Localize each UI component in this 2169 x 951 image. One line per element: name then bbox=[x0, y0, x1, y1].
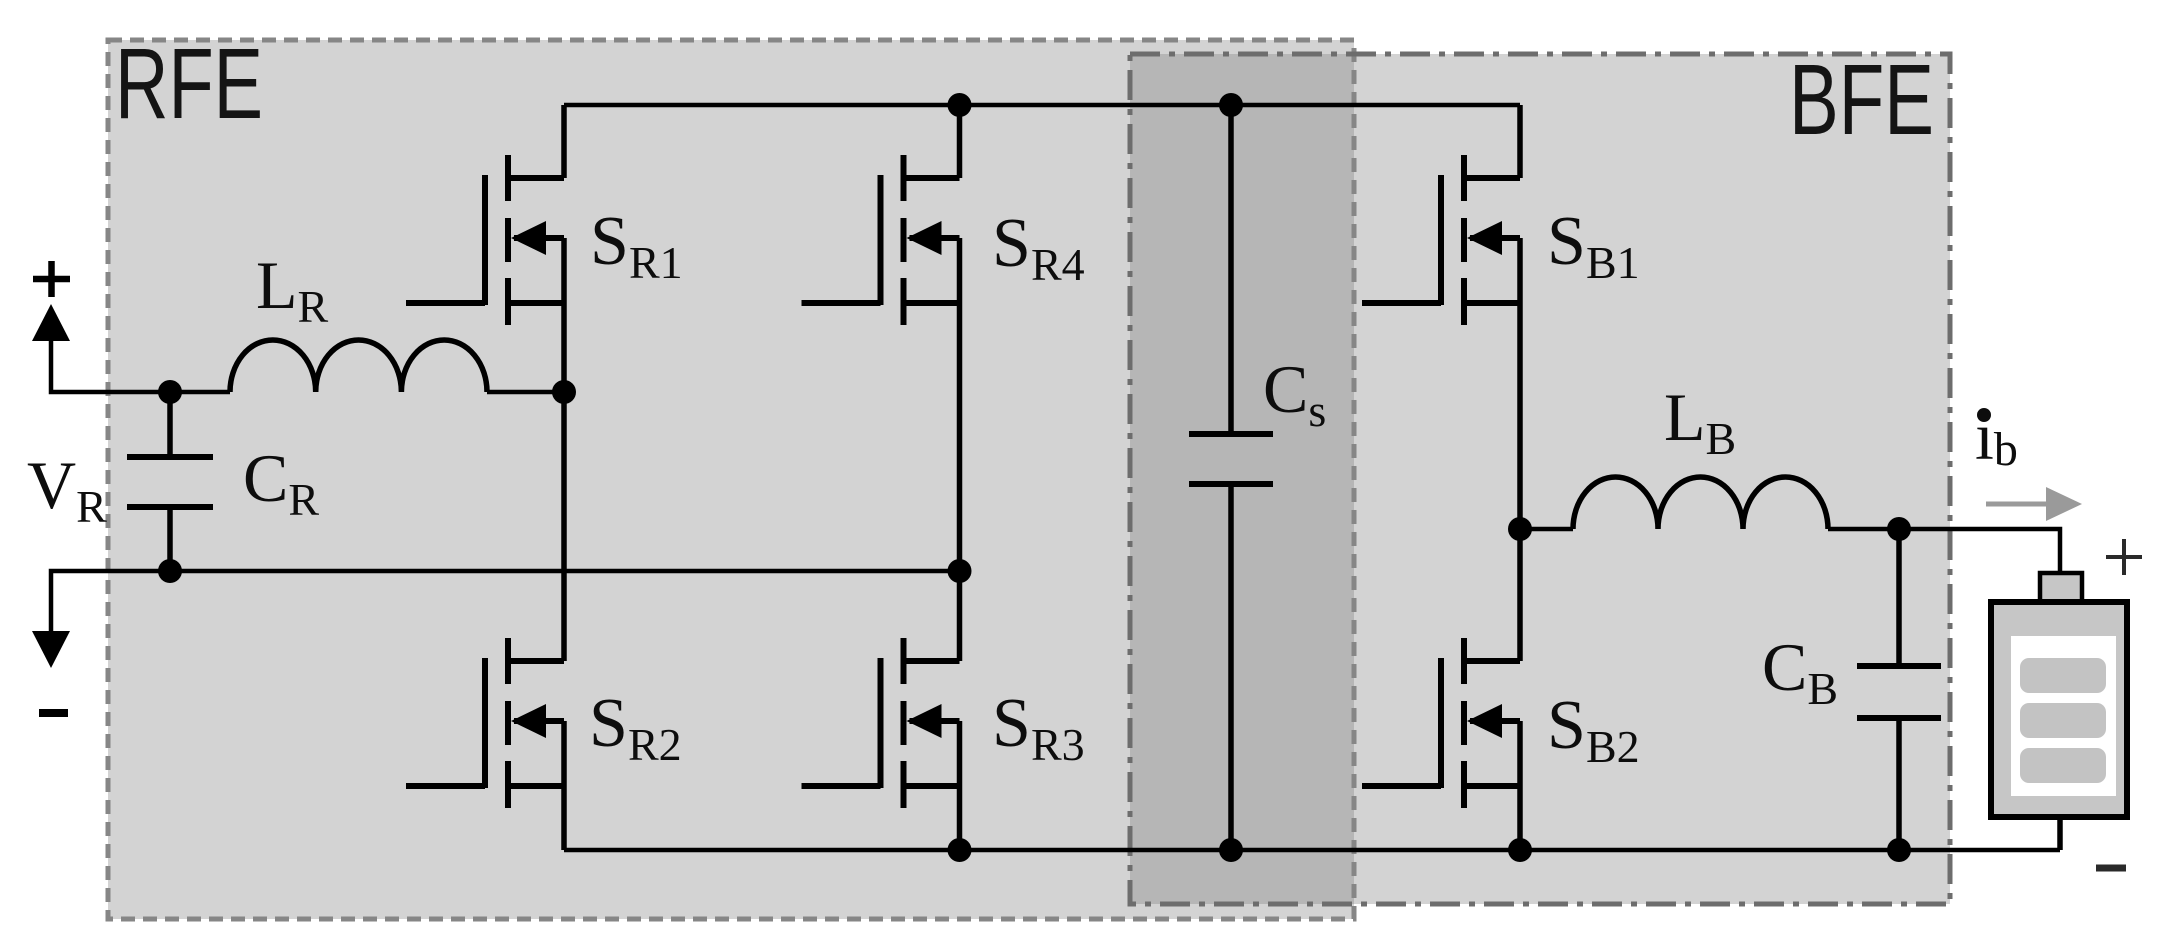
wire legB middle segment bbox=[1517, 238, 1523, 661]
wire Vr plus lead bbox=[51, 338, 230, 392]
battery terminal stub bbox=[2040, 573, 2082, 602]
wire leg1 drain segment bbox=[561, 105, 567, 178]
capacitor CR bbox=[127, 392, 213, 571]
battery bar 1 bbox=[2020, 658, 2106, 693]
plus sign Vr bbox=[33, 261, 70, 297]
wire leg2 drain segment bbox=[957, 105, 963, 178]
wire phase node B to LB bbox=[1520, 527, 1573, 532]
capacitor Cs bbox=[1189, 105, 1273, 850]
wire legB source segment bbox=[1517, 721, 1523, 850]
transistor SB2 bbox=[1362, 638, 1520, 808]
dot of ib label bbox=[1977, 408, 1991, 422]
wire top rail bbox=[564, 103, 1520, 108]
node mid return leg2 bbox=[948, 559, 972, 583]
transistor SR4 bbox=[802, 155, 960, 325]
transistor SB1 bbox=[1362, 155, 1520, 325]
capacitor CB bbox=[1857, 529, 1941, 850]
node phase A (LR output) bbox=[552, 380, 576, 404]
inductor LR bbox=[230, 340, 487, 392]
transistor SR2 bbox=[406, 638, 564, 808]
BFE dash-dot border bbox=[1130, 54, 1950, 904]
wire battery negative lead bbox=[2057, 817, 2063, 850]
transistor SR1 bbox=[406, 155, 564, 325]
transistor SR3 bbox=[802, 638, 960, 808]
svg-text:VR: VR bbox=[27, 447, 107, 532]
wire battery positive lead bbox=[1899, 529, 2060, 573]
wire leg1 source segment bbox=[561, 721, 567, 850]
arrow Vr minus bbox=[32, 631, 70, 668]
wire legB drain segment bbox=[1517, 105, 1523, 178]
battery body bbox=[1991, 602, 2127, 817]
node CR bottom bbox=[158, 559, 182, 583]
arrow ib current bbox=[1986, 502, 2048, 507]
node bottom rail legB bbox=[1508, 838, 1532, 862]
node Vr plus / CR top bbox=[158, 380, 182, 404]
battery bar 2 bbox=[2020, 703, 2106, 738]
wire leg2 middle segment bbox=[957, 238, 963, 661]
node top rail leg2 bbox=[948, 93, 972, 117]
node phase B (LB input) bbox=[1508, 517, 1532, 541]
inductor LB bbox=[1573, 477, 1828, 529]
node top rail Cs bbox=[1219, 93, 1243, 117]
plus sign battery bbox=[2106, 539, 2142, 575]
RFE region fill bbox=[108, 40, 1354, 919]
BFE region fill bbox=[1130, 54, 1950, 904]
node LB output / CB top bbox=[1887, 517, 1911, 541]
arrow Vr plus bbox=[32, 304, 70, 341]
node bottom rail Cs bbox=[1219, 838, 1243, 862]
wire bottom rail bbox=[564, 848, 2060, 853]
svg-text:RFE: RFE bbox=[115, 28, 263, 140]
node bottom rail CB bbox=[1887, 838, 1911, 862]
node bottom rail leg2 bbox=[948, 838, 972, 862]
svg-text:BFE: BFE bbox=[1789, 44, 1934, 156]
minus sign Vr bbox=[39, 709, 68, 717]
wire leg2 source segment bbox=[957, 721, 963, 850]
battery inner window bbox=[2011, 636, 2116, 796]
RFE dashed border bbox=[108, 40, 1354, 919]
battery bar 3 bbox=[2020, 748, 2106, 783]
wire leg1 middle segment bbox=[561, 238, 567, 661]
wire mid return bbox=[51, 571, 960, 633]
wire LR to phase node bbox=[487, 390, 564, 395]
wire LB to CB node bbox=[1828, 527, 1899, 532]
RFE/BFE overlap region fill bbox=[1130, 54, 1354, 904]
minus sign battery bbox=[2096, 865, 2126, 872]
